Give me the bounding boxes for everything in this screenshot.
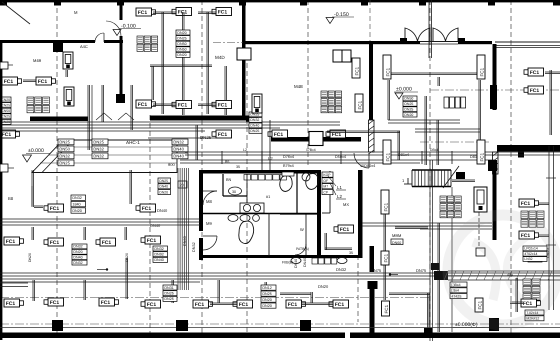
pipes top drop c [207, 12, 209, 114]
svg-text:35: 35 [349, 251, 353, 255]
pipes entry v [438, 77, 440, 86]
duct stack 3 [172, 139, 188, 159]
mid wall stub [353, 137, 361, 142]
duct stack 1 [58, 139, 74, 166]
left vfc [64, 87, 74, 106]
band connector [431, 263, 439, 270]
fc1 top row 1 [136, 8, 156, 16]
svg-text:FC1: FC1 [218, 103, 228, 109]
level -0.150 [326, 12, 354, 24]
toilet inner wall h213 [203, 213, 318, 215]
fc1 row2 1 [136, 100, 156, 108]
svg-text:FC1: FC1 [138, 102, 148, 108]
label DN20 vert [546, 248, 550, 258]
stack right upper [403, 96, 417, 117]
svg-text:CN20: CN20 [1, 98, 10, 102]
stack br2 [523, 279, 540, 300]
stack lb1 [72, 244, 87, 265]
core label stack [322, 172, 333, 195]
fc1 right wall [524, 68, 544, 76]
svg-text:AHC-1: AHC-1 [126, 140, 140, 145]
svg-text:DN20: DN20 [73, 250, 82, 254]
right vfc c [352, 58, 360, 78]
svg-text:OF: OF [323, 179, 328, 183]
fc1 right wall2 [524, 86, 544, 94]
column at x57 wall [53, 43, 63, 52]
top wall column stub [117, 0, 124, 6]
shaft hatch x494 [493, 152, 499, 174]
svg-text:DN20: DN20 [177, 53, 186, 57]
svg-text:DN32: DN32 [154, 247, 163, 251]
right block wall left lip [518, 152, 524, 158]
svg-text:KOP: KOP [323, 173, 331, 177]
bottom wall 2 [350, 333, 560, 339]
svg-text:DN32: DN32 [336, 267, 347, 272]
stall wall [268, 213, 270, 256]
fc1 mid a [212, 130, 232, 138]
svg-text:FC1: FC1 [6, 239, 16, 245]
mid center pipes [327, 131, 400, 160]
level +0.000 left [23, 148, 51, 162]
fc1 bottom 4 [193, 300, 213, 308]
right stack row [444, 97, 466, 108]
corridor valve ticks [222, 151, 452, 164]
svg-text:M4E: M4E [294, 84, 303, 89]
right block wall [497, 145, 560, 152]
fc1 m2b [44, 238, 64, 246]
svg-text:35: 35 [236, 165, 240, 169]
svg-text:FC1: FC1 [288, 302, 298, 308]
duct AHC-1 [32, 140, 177, 173]
pipes m2 [32, 227, 127, 240]
corridor band [0, 219, 200, 225]
svg-text:FC1: FC1 [4, 79, 14, 85]
left cluster [27, 97, 49, 113]
room label M4E [294, 84, 303, 89]
bottom wall 1 [0, 333, 345, 339]
right vfc a [383, 55, 391, 79]
svg-text:M4D: M4D [215, 55, 225, 60]
fc1 r1 [519, 199, 539, 207]
riser bundle [178, 168, 189, 290]
svg-text:FC1: FC1 [50, 300, 60, 306]
stack ml [71, 195, 86, 213]
fc1 row2 2 [172, 101, 192, 109]
svg-text:FC1: FC1 [385, 67, 390, 76]
svg-text:CN25: CN25 [1, 115, 10, 119]
label M8 [206, 199, 212, 204]
fc1 mid b [268, 130, 288, 138]
mid vfc unit [252, 94, 262, 113]
svg-text:DN25: DN25 [200, 135, 212, 140]
watermark [448, 215, 558, 325]
fc1 bottom 2 [99, 298, 119, 306]
MBM label [392, 233, 403, 243]
label 20 box [178, 181, 187, 188]
right pipes drop a [388, 80, 390, 120]
underline L1 [336, 190, 346, 199]
wall x121 upper [120, 0, 123, 20]
svg-text:DN40: DN40 [159, 185, 168, 189]
wall x243 [242, 0, 246, 120]
svg-text:CN25: CN25 [1, 103, 10, 107]
stair core wall x358 [358, 170, 363, 258]
svg-text:DN40: DN40 [303, 258, 307, 267]
duct right pipes [196, 125, 198, 160]
column x494 mid [488, 160, 497, 171]
svg-text:DN32: DN32 [173, 140, 184, 145]
pipes top drop a [162, 12, 164, 114]
left stack edge [0, 97, 11, 124]
toilet inner wall v222 [222, 174, 224, 196]
svg-text:FC1: FC1 [530, 88, 540, 94]
pipes bottom v [33, 258, 313, 303]
grid line [357, 255, 359, 322]
wall x494 [493, 44, 497, 110]
pipes bottom link [210, 293, 333, 305]
band arrow [97, 268, 108, 270]
door swing x121 [106, 21, 121, 36]
svg-text:CN50: CN50 [1, 109, 10, 113]
stack ml2 [158, 178, 171, 195]
window lines right [495, 42, 560, 48]
svg-text:FC1: FC1 [6, 301, 16, 307]
svg-text:FC1: FC1 [340, 227, 350, 233]
bottom col 1 [52, 320, 63, 331]
svg-text:B5: B5 [225, 160, 229, 164]
top wall column stub [54, 0, 61, 6]
wc oval [229, 187, 242, 195]
band arrow2 [389, 273, 398, 275]
vfc br2 [475, 298, 483, 312]
fc1 ml1 [44, 204, 64, 212]
staircase [412, 166, 465, 188]
svg-text:DN32: DN32 [250, 118, 259, 122]
wall x370 lower [370, 283, 375, 336]
vfc lower a [381, 190, 389, 214]
dn60 box [391, 239, 403, 245]
pipe lower b [478, 206, 480, 248]
svg-text:DN25: DN25 [59, 161, 70, 166]
svg-text:DN50: DN50 [404, 97, 413, 101]
svg-text:MX: MX [343, 202, 349, 207]
band right lines [448, 271, 560, 280]
stack c2 [153, 246, 168, 262]
toilet wall right x318 [317, 170, 321, 258]
toilet wall bottom [199, 255, 362, 258]
svg-text:DN50: DN50 [177, 42, 186, 46]
grid x370 top [369, 0, 371, 41]
grid line [246, 55, 248, 334]
svg-text:A4C: A4C [80, 44, 88, 49]
pipes top drop b [183, 12, 185, 100]
svg-text:17Bx4: 17Bx4 [306, 148, 316, 152]
svg-text:FC1: FC1 [239, 302, 249, 308]
svg-text:DN25: DN25 [59, 140, 70, 145]
label BN [226, 178, 232, 182]
grid line [429, 0, 431, 334]
svg-text:DN40: DN40 [157, 208, 168, 213]
svg-text:DN20: DN20 [318, 284, 329, 289]
svg-text:FC1: FC1 [218, 132, 228, 138]
v pipes right band [438, 223, 440, 332]
riser labels rot [28, 253, 129, 262]
svg-text:FC1: FC1 [195, 302, 205, 308]
left wall edge [0, 40, 2, 340]
duct stack 2 [92, 139, 108, 159]
svg-text:FC1: FC1 [385, 152, 390, 161]
svg-text:M8: M8 [206, 199, 212, 204]
stack group A [137, 36, 158, 51]
label DN20 v2 [294, 258, 307, 268]
core pipes [325, 233, 353, 255]
label NX [343, 202, 349, 207]
svg-text:DN12: DN12 [262, 286, 271, 290]
lower band labels [318, 267, 427, 289]
svg-text:PATB(A): PATB(A) [296, 247, 309, 251]
toilet wall left [199, 171, 203, 231]
right mid ticks [546, 178, 556, 245]
svg-text:DN20: DN20 [125, 253, 129, 262]
svg-text:FC1: FC1 [50, 206, 60, 212]
svg-text:LN32: LN32 [524, 257, 532, 261]
svg-text:FC1: FC1 [2, 132, 12, 138]
label 40a [507, 273, 513, 277]
room label M [74, 10, 78, 15]
room label AHC-1 [126, 140, 140, 145]
acc sink [302, 173, 310, 181]
svg-text:DN92: DN92 [154, 253, 163, 257]
mid wall right [271, 137, 353, 142]
left edge unit2 [0, 62, 13, 69]
vfc room A4C [63, 52, 73, 69]
section mark 1 [402, 178, 412, 184]
centerline room top [213, 42, 243, 44]
fc1 top row 3 [212, 8, 232, 16]
stack group B [176, 30, 190, 57]
svg-text:DN20: DN20 [177, 31, 186, 35]
fc1 m2a [4, 237, 24, 245]
wall double v262 [262, 120, 270, 170]
svg-text:FC1: FC1 [274, 132, 284, 138]
label W [266, 195, 270, 199]
centerline entry [420, 141, 490, 143]
svg-text:DN20: DN20 [28, 253, 32, 262]
room label M4B [33, 58, 42, 63]
bottom col 5 [489, 318, 499, 331]
label FATB [296, 247, 309, 251]
svg-text:DN40: DN40 [250, 124, 259, 128]
label DN40 v [183, 236, 196, 252]
svg-text:DN40: DN40 [173, 147, 184, 152]
leader L2 [330, 183, 342, 199]
door jamb ticks [400, 38, 465, 42]
pipes top link [153, 12, 216, 14]
svg-text:DN25: DN25 [93, 140, 104, 145]
corridor centerline [0, 297, 430, 299]
door peak b [118, 113, 134, 120]
svg-text:CP: CP [323, 190, 328, 194]
dn12 box [528, 256, 542, 262]
svg-text:DN32: DN32 [72, 196, 81, 200]
svg-text:4702x14: 4702x14 [524, 252, 537, 256]
window box x243 [237, 48, 251, 60]
svg-text:DN40: DN40 [154, 258, 163, 262]
vfc mid pair [355, 94, 363, 112]
svg-text:BN: BN [226, 178, 232, 182]
svg-text:DN40: DN40 [183, 236, 187, 246]
top wall column stub [553, 0, 560, 6]
big cluster lower [440, 196, 461, 218]
svg-text:FC1: FC1 [383, 202, 388, 211]
upper wall center2 [370, 41, 420, 44]
pipes row2 link [153, 104, 216, 106]
urinals [228, 215, 259, 222]
centerline right [430, 89, 560, 91]
fc1 ml2 [136, 204, 156, 212]
fc1 bottom 1 [44, 298, 64, 306]
svg-text:DN40: DN40 [150, 223, 161, 228]
grid line [149, 115, 151, 334]
pipes h duct top [150, 65, 212, 67]
svg-text:FC1: FC1 [147, 238, 157, 244]
pipe band right [362, 223, 492, 229]
stack grid right [521, 211, 544, 227]
room label B8 [8, 196, 14, 201]
svg-text:FC1: FC1 [354, 66, 359, 75]
top wall column stub [239, 0, 246, 6]
svg-text:FC1: FC1 [50, 240, 60, 246]
core inner wall [322, 171, 330, 213]
svg-text:FC1: FC1 [335, 302, 345, 308]
level +0.000 bottom [453, 322, 489, 328]
fc1 m2c [96, 238, 116, 246]
wall x121 lower [120, 36, 123, 102]
right room v pipes [425, 96, 439, 165]
svg-text:M7: M7 [323, 185, 328, 189]
svg-text:DN32: DN32 [73, 245, 82, 249]
svg-text:L2: L2 [268, 156, 273, 161]
svg-text:DN40: DN40 [173, 154, 184, 159]
svg-text:L1: L1 [337, 185, 342, 190]
svg-text:#1: #1 [266, 195, 270, 199]
svg-text:DN32: DN32 [73, 261, 82, 265]
wall x494 lower [493, 170, 497, 240]
svg-text:M: M [74, 10, 78, 15]
svg-text:FC1: FC1 [523, 301, 533, 307]
svg-text:FC1: FC1 [38, 79, 48, 85]
toilet inner wall v247 [246, 174, 248, 213]
svg-text:M9: M9 [206, 221, 212, 226]
fc1 bottom 5 [233, 300, 253, 308]
stack bottom r [261, 285, 276, 308]
pipes br v [510, 278, 523, 312]
shaft hatch x370 [369, 120, 375, 154]
toilet wall top [199, 170, 320, 174]
svg-text:DN25: DN25 [250, 129, 259, 133]
svg-text:DN60: DN60 [392, 241, 401, 245]
corridor pipes center [180, 152, 560, 163]
upper wall center [244, 41, 370, 44]
stack bottom r2 [163, 285, 177, 301]
svg-text:DN25: DN25 [262, 292, 271, 296]
door arc top right [0, 0, 1, 1]
top wall column stub [419, 0, 426, 6]
band dark right [434, 271, 552, 280]
svg-text:DN31: DN31 [164, 286, 173, 290]
svg-text:DN25: DN25 [164, 292, 173, 296]
left edge unit [0, 164, 14, 172]
fc1 bottom 7 [329, 300, 349, 308]
fc1 br [521, 299, 541, 307]
level +0.000 right [394, 87, 418, 100]
right vfc b [477, 55, 485, 79]
grid line [307, 0, 309, 168]
mid wall stub2 [246, 117, 258, 122]
svg-text:FC1: FC1 [357, 100, 362, 109]
svg-text:DN20: DN20 [72, 209, 81, 213]
right mid pipes [538, 146, 554, 310]
label W2 [300, 227, 304, 232]
svg-text:DN40: DN40 [73, 255, 82, 259]
acc inner wall [280, 214, 317, 255]
stair verticals below [452, 180, 475, 332]
label 900 [168, 162, 175, 167]
duct inner lines [40, 147, 177, 163]
wall x370 mid [370, 246, 375, 272]
svg-text:DN75: DN75 [416, 268, 427, 273]
svg-text:DN20: DN20 [262, 304, 271, 308]
sink pair [240, 203, 264, 213]
grid line [201, 0, 203, 334]
top border wall [0, 0, 560, 2]
wall x370 [369, 44, 373, 120]
upper-left wall [0, 40, 95, 43]
acc wc [280, 172, 294, 192]
stack r mid [523, 246, 547, 261]
svg-text:FC1: FC1 [383, 253, 388, 262]
svg-text:FC1: FC1 [530, 70, 540, 76]
pipe mid h [148, 137, 216, 139]
top wall column stub [0, 0, 7, 6]
corridor centerline2 [0, 323, 560, 325]
bottom col 4 [424, 328, 432, 337]
column box mid [309, 132, 323, 146]
svg-text:M4B: M4B [33, 58, 42, 63]
right edge pipes [545, 70, 560, 135]
svg-text:FC1: FC1 [384, 304, 389, 313]
svg-text:FC1: FC1 [477, 300, 482, 309]
top wall column stub [300, 0, 307, 6]
door swing upper-left [95, 33, 104, 42]
lower band [0, 273, 560, 282]
svg-text:D50x4: D50x4 [335, 155, 346, 159]
corridor tick labels [243, 148, 438, 152]
acc door [295, 244, 306, 255]
left edge pipes low [0, 283, 28, 287]
svg-text:FC1: FC1 [218, 10, 228, 16]
label L2 right [225, 156, 273, 169]
svg-text:FC1: FC1 [147, 302, 157, 308]
svg-text:FC1: FC1 [521, 201, 531, 207]
toilet door arc 1 [203, 191, 217, 205]
toilet inner wall h196 [223, 195, 247, 197]
door peak a [96, 113, 112, 120]
svg-text:DN25: DN25 [404, 102, 413, 106]
fc1 room M4B b [36, 77, 56, 85]
fc1 bottom 6 [286, 300, 306, 308]
toilet wall left lower [199, 238, 203, 260]
